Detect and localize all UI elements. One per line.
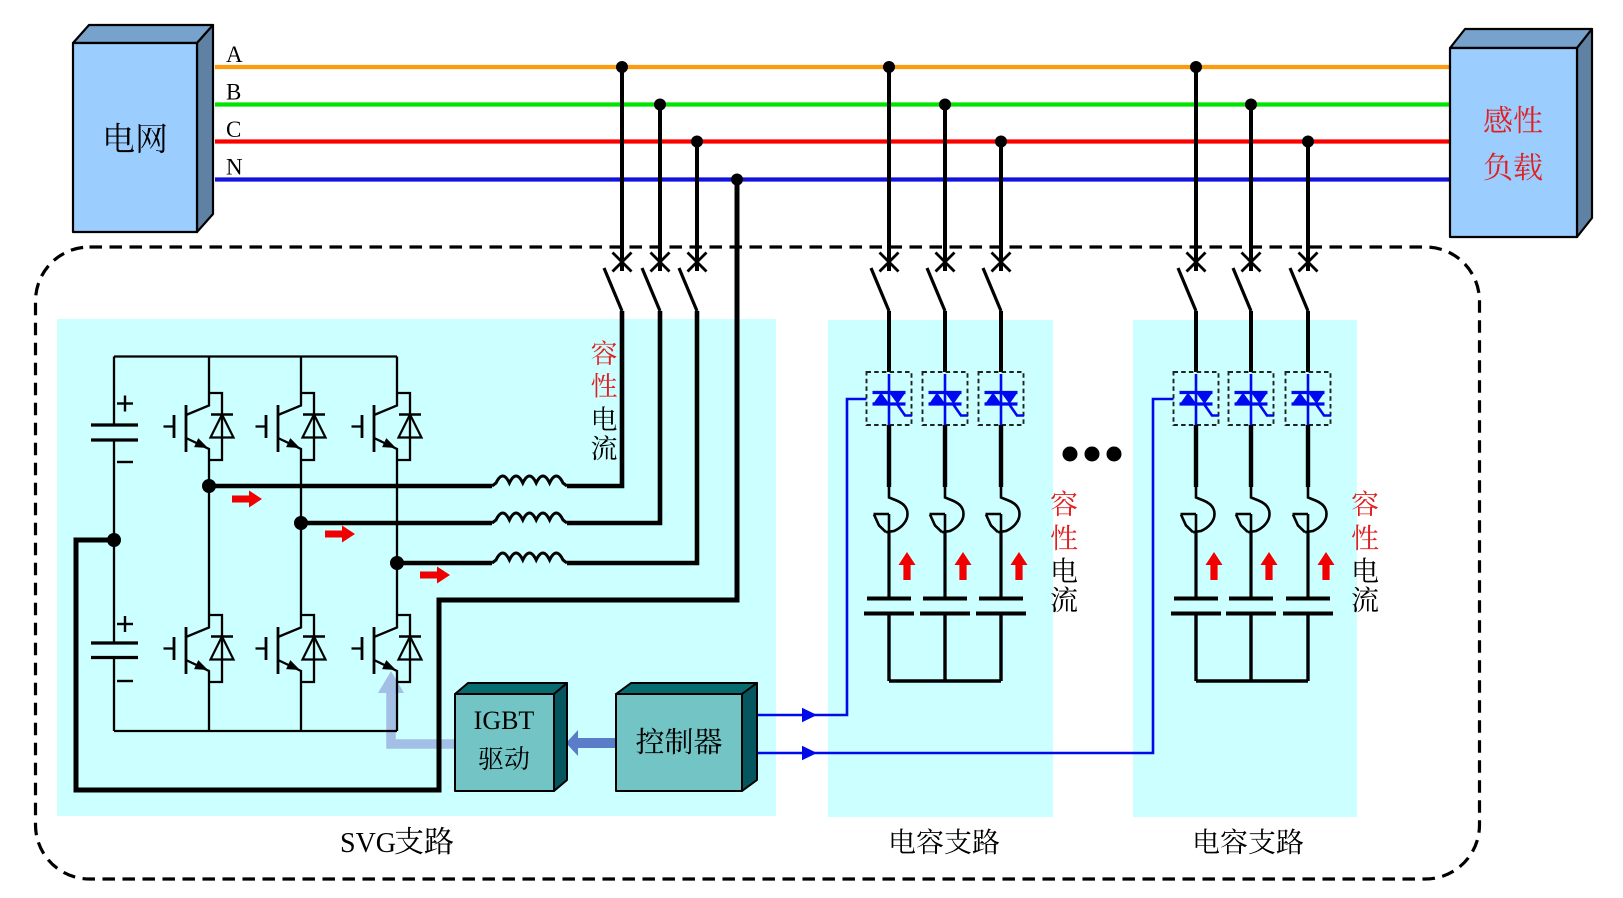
red arrow capacitive current branch2-1: [1206, 552, 1223, 580]
wire tap B-QC1: [943, 105, 947, 272]
disconnect switch A-SVG: [604, 253, 632, 312]
disconnect switch B-QC1: [927, 253, 955, 312]
disconnect switch B-QC2: [1233, 253, 1261, 312]
inductor L2: [492, 513, 567, 523]
control wire to branch 1 thyristors: [758, 399, 867, 715]
capacitor C13: [976, 599, 1026, 614]
label capacitive current (branch 2): [1352, 490, 1378, 516]
capacitor C1 upper DC-link: [91, 425, 138, 440]
control wire to branch 2 thyristors: [758, 399, 1174, 753]
junction dot C-QC2: [1302, 136, 1314, 148]
wire thyristor to reactor branch2-1: [1194, 425, 1198, 487]
IGBT Q6 with antiparallel diode: [352, 615, 422, 682]
red arrow capacitive current branch1-1: [899, 552, 916, 580]
ellipsis dots (more branches): [1063, 447, 1122, 462]
thyristor valve TV12: [929, 374, 969, 425]
wire switch to thyristor x=1001: [999, 311, 1003, 372]
capacitor C12: [920, 599, 970, 614]
blue arrow head branch 1: [802, 708, 817, 722]
svg-text:C: C: [226, 117, 241, 142]
svg-text:A: A: [226, 42, 243, 67]
reactor L12: [930, 487, 964, 533]
wire output phase V: [301, 311, 660, 523]
wire capacitor to bus branch1-3: [999, 614, 1002, 682]
label 电容支路 branch 2: [1196, 828, 1220, 853]
reactor L23: [1293, 487, 1327, 533]
wire tap A-SVG: [620, 67, 624, 271]
wire capacitor to bus branch2-1: [1194, 614, 1197, 682]
capacitor branch 2 background panel: [1133, 320, 1357, 817]
DC bus top wire: [114, 355, 397, 357]
disconnect switch A-QC1: [871, 253, 899, 312]
power grid box 电网: [73, 25, 213, 232]
reactor L22: [1236, 487, 1270, 533]
wire bridge leg W: [396, 357, 398, 732]
svg-text:IGBT: IGBT: [474, 706, 535, 735]
wire neutral N: [215, 177, 1450, 181]
junction dot N-SVG: [731, 174, 743, 186]
wire switch to thyristor x=1196: [1194, 311, 1198, 372]
red arrow capacitive current branch2-3: [1318, 552, 1335, 580]
junction dot C-SVG: [691, 136, 703, 148]
junction dot DC midpoint: [107, 533, 121, 547]
wire reactor to capacitor branch1-3: [999, 533, 1002, 599]
wire thyristor to reactor branch2-2: [1249, 425, 1253, 487]
wire thyristor to reactor branch2-3: [1306, 425, 1310, 487]
disconnect switch C-QC2: [1290, 253, 1318, 312]
wire neutral return path: [76, 180, 737, 791]
thyristor valve dashed box branch2-1: [1174, 372, 1219, 425]
capacitor C23: [1283, 599, 1333, 614]
thyristor valve dashed box branch2-3: [1286, 372, 1331, 425]
IGBT Q3 with antiparallel diode: [352, 393, 422, 460]
node U: [202, 479, 216, 493]
controller box 控制器: [616, 683, 757, 791]
enclosure dashed boundary: [36, 247, 1480, 879]
wire capacitor to bus branch1-2: [943, 614, 946, 682]
inductive load box 感性负载: [1450, 29, 1592, 237]
thyristor valve TV22: [1235, 374, 1275, 425]
thyristor valve dashed box branch1-1: [867, 372, 912, 425]
label 电容支路 branch 1: [892, 828, 916, 853]
wire bottom bus branch2: [1196, 679, 1308, 683]
svg-text:B: B: [226, 80, 241, 105]
capacitor branch 1 background panel: [828, 320, 1053, 817]
wire phase B: [215, 102, 1450, 106]
wire bottom bus branch1: [889, 679, 1001, 683]
node W: [390, 556, 404, 570]
wire capacitor to bus branch2-2: [1249, 614, 1252, 682]
wire switch to thyristor x=889: [887, 311, 891, 372]
wire capacitor to bus branch1-1: [887, 614, 890, 682]
wire tap C-SVG: [695, 142, 699, 272]
wire switch to thyristor x=1251: [1249, 311, 1253, 372]
capacitor C21: [1171, 599, 1221, 614]
IGBT Q5 with antiparallel diode: [256, 615, 326, 682]
wire tap C-QC1: [999, 142, 1003, 272]
disconnect switch C-QC1: [983, 253, 1011, 312]
IGBT Q4 with antiparallel diode: [164, 615, 234, 682]
label C1 polarity: [117, 396, 133, 463]
wire reactor to capacitor branch1-2: [943, 533, 946, 599]
wire output phase W: [397, 311, 697, 563]
capacitor C22: [1226, 599, 1276, 614]
wire capacitor to bus branch2-3: [1306, 614, 1309, 682]
inductor L3: [492, 553, 567, 563]
thyristor valve TV13: [985, 374, 1025, 425]
gate drive signal wire (pale blue): [391, 692, 455, 744]
wire DC-link left string: [113, 357, 115, 732]
thyristor valve dashed box branch1-3: [979, 372, 1024, 425]
inductor L1: [492, 476, 567, 486]
junction dot C-QC1: [995, 136, 1007, 148]
red arrow current iU: [232, 491, 262, 508]
junction dot A-QC2: [1190, 61, 1202, 73]
blue arrow head branch 2: [802, 746, 817, 760]
wire phase C: [215, 139, 1450, 143]
red arrow capacitive current branch2-2: [1261, 552, 1278, 580]
label capacitive current (branch 1): [1051, 490, 1077, 516]
gate drive arrow head: [378, 671, 404, 693]
capacitor C2 lower DC-link: [91, 643, 138, 658]
disconnect switch A-QC2: [1178, 253, 1206, 312]
junction dot B-SVG: [654, 99, 666, 111]
junction dot A-SVG: [616, 61, 628, 73]
thyristor valve TV23: [1292, 374, 1332, 425]
wire thyristor to reactor branch1-3: [999, 425, 1003, 487]
wire bridge leg V: [300, 357, 302, 732]
wire bridge leg U: [208, 357, 210, 732]
wire tap A-QC2: [1194, 67, 1198, 271]
svg-text:N: N: [226, 155, 243, 180]
reactor L13: [986, 487, 1020, 533]
wire tap C-QC2: [1306, 142, 1310, 272]
wire reactor to capacitor branch1-1: [887, 533, 890, 599]
wire switch to thyristor x=945: [943, 311, 947, 372]
thyristor valve TV11: [873, 374, 913, 425]
node V: [294, 516, 308, 530]
wire phase A: [215, 65, 1450, 69]
wire thyristor to reactor branch1-1: [887, 425, 891, 487]
svg-text:SVG: SVG: [340, 828, 396, 859]
SVG branch background panel: [57, 319, 776, 816]
wire reactor to capacitor branch2-1: [1194, 533, 1197, 599]
DC bus bottom wire: [114, 730, 397, 732]
control signal arrow controller to driver: [566, 730, 616, 756]
disconnect switch B-SVG: [642, 253, 670, 312]
red arrow capacitive current branch1-2: [955, 552, 972, 580]
junction dot B-QC1: [939, 99, 951, 111]
label capacitive current (SVG branch): [592, 340, 617, 365]
thyristor valve dashed box branch2-2: [1229, 372, 1274, 425]
red arrow current iV: [325, 526, 355, 543]
wire switch to thyristor x=1308: [1306, 311, 1310, 372]
wire thyristor to reactor branch1-2: [943, 425, 947, 487]
thyristor valve TV21: [1180, 374, 1220, 425]
wire tap B-QC2: [1249, 105, 1253, 272]
wire reactor to capacitor branch2-3: [1306, 533, 1309, 599]
capacitor C11: [864, 599, 914, 614]
junction dot A-QC1: [883, 61, 895, 73]
wire output phase U: [209, 311, 622, 486]
thyristor valve dashed box branch1-2: [923, 372, 968, 425]
IGBT Q1 with antiparallel diode: [164, 393, 234, 460]
reactor L21: [1181, 487, 1215, 533]
reactor L11: [874, 487, 908, 533]
wire tap A-QC1: [887, 67, 891, 271]
wire tap B-SVG: [658, 105, 662, 272]
red arrow capacitive current branch1-3: [1011, 552, 1028, 580]
IGBT driver box IGBT驱动: [455, 683, 567, 791]
wire reactor to capacitor branch2-2: [1249, 533, 1252, 599]
junction dot B-QC2: [1245, 99, 1257, 111]
disconnect switch C-SVG: [679, 253, 707, 312]
label C2 polarity: [117, 616, 133, 681]
IGBT Q2 with antiparallel diode: [256, 393, 326, 460]
red arrow current iW: [420, 567, 450, 584]
